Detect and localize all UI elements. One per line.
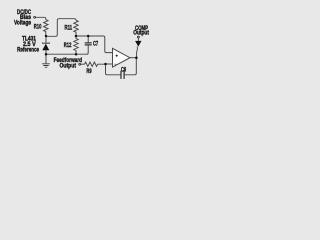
- background: [0, 0, 160, 90]
- svg-text:R11: R11: [65, 24, 73, 31]
- junction R11/R12/node A: [75, 35, 78, 38]
- wire R10 junction to R11 top link: [46, 19, 76, 37]
- wire R9 junction to op-amp inverting input: [106, 63, 113, 65]
- COMP arrow: [135, 41, 141, 47]
- wire C6 to output junction: [124, 58, 136, 75]
- junction R12 bottom: [75, 53, 78, 56]
- wire R9 junction down to C6 rail: [106, 65, 121, 75]
- junction TL431 anode/ground: [45, 53, 48, 56]
- feedforward terminal node: [79, 63, 81, 65]
- resistor R10: [44, 20, 48, 35]
- resistor R9: [85, 62, 105, 66]
- resistor R11: [74, 20, 78, 35]
- TL431 U1 cathode bar: [43, 42, 50, 45]
- wire bias terminal to R10 top: [36, 17, 46, 19]
- op-amp inverting marker: [114, 63, 116, 65]
- wire COMP arrow to output junction: [136, 46, 139, 57]
- wire TL431 cathode stem: [45, 36, 47, 43]
- svg-text:R10: R10: [34, 24, 42, 31]
- svg-text:R12: R12: [64, 42, 72, 49]
- wire TL431 anode to ground junction: [45, 50, 47, 54]
- op-amp output wire: [130, 57, 136, 59]
- node DC/DC bias terminal: [34, 16, 36, 18]
- wire COMP terminal stem: [137, 38, 139, 41]
- wire ground stem: [45, 54, 47, 63]
- svg-text:C6: C6: [121, 66, 127, 73]
- ground symbol: [42, 64, 50, 67]
- svg-text:Output: Output: [133, 30, 149, 37]
- wire feedforward terminal to R9: [81, 63, 85, 65]
- capacitor C7 stem top: [87, 36, 89, 43]
- resistor R12: [74, 37, 78, 53]
- capacitor C7 plates: [85, 43, 92, 45]
- svg-text:Voltage: Voltage: [14, 20, 32, 27]
- COMP terminal node: [137, 36, 139, 38]
- op-amp noninverting marker: [116, 55, 118, 57]
- junction R9/C6/inverting input: [104, 63, 107, 66]
- junction op-amp output: [135, 56, 138, 59]
- junction R10/TL431/R11: [45, 35, 48, 38]
- svg-text:R9: R9: [86, 68, 92, 75]
- junction C7 top: [87, 35, 90, 38]
- svg-text:Output: Output: [60, 62, 77, 69]
- svg-text:C7: C7: [93, 40, 99, 47]
- node A rail to C7 and op-amp feed: [76, 36, 113, 53]
- ground rail (anode to R12/C7 bottom): [46, 45, 88, 54]
- svg-text:Reference: Reference: [17, 47, 39, 54]
- op-amp U2 triangle: [113, 48, 131, 67]
- capacitor C6 plates: [121, 71, 124, 79]
- TL431 U1 anode triangle: [42, 44, 49, 51]
